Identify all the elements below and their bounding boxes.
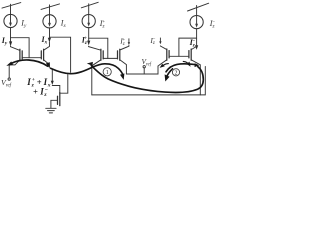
T7 drain L wire	[52, 86, 60, 93]
gate rail pair 1	[22, 57, 41, 59]
down arrow glyph T4	[128, 38, 130, 42]
current source I_z+ arrowhead	[87, 23, 90, 27]
svg-text:+: +	[37, 77, 42, 87]
T7 gate lead wire	[51, 100, 58, 108]
transistor T2 gate bar	[40, 51, 42, 59]
gate rail pair 3	[169, 55, 189, 57]
transistor T5 channel bar	[166, 49, 168, 60]
arrowhead A1 into V_ref1 corner	[6, 62, 13, 66]
wire I_z+ to T3 drain diagonal	[89, 46, 101, 50]
transistor T1 channel bar	[19, 49, 21, 60]
transistor T2 source diagonal	[44, 60, 50, 67]
arrowhead D big pointing down-left near node 2	[165, 74, 170, 81]
arrowhead A2 into T2 source junction	[46, 62, 50, 68]
svg-text:I: I	[26, 77, 31, 87]
small arrow on T6 source diagonal	[187, 62, 191, 67]
transistor T3 gate bar	[102, 51, 104, 59]
transistor T2 channel bar	[43, 49, 45, 60]
node circle 1	[103, 68, 111, 76]
transistor T7 gate bar	[57, 96, 59, 104]
arrowhead C1 into T3 source junction	[87, 62, 93, 66]
wire I_z+ down	[88, 28, 90, 41]
wire I_z- to T6 drain diagonal	[191, 46, 196, 49]
wire I_z- down	[196, 29, 198, 45]
transistor T5 drain diagonal	[160, 46, 166, 50]
transistor T1 source diagonal	[9, 60, 20, 78]
current source I_z- arrow line	[196, 6, 198, 26]
current source I_x arrowhead	[48, 23, 51, 27]
arrowhead into T7 drain	[51, 81, 54, 85]
V_ref2 rail wire	[126, 66, 158, 74]
arrow on I_z+ wire	[87, 41, 90, 46]
T7 drain right branch wire	[60, 75, 68, 94]
bracket wire CS4 gate tie	[179, 38, 197, 56]
arrow on I_y wire	[9, 41, 12, 46]
curve B S-curve to pair2 rail corner	[51, 64, 123, 75]
bracket wire CS2 down to node	[50, 37, 71, 72]
current source I_z- arrowhead	[195, 24, 198, 28]
current source I_y circle	[4, 14, 17, 27]
curve D inner arrow shaft	[166, 69, 172, 78]
current source I_x (top tick)	[41, 4, 60, 9]
arrowhead C2 (epsilon) into T6 source junction	[195, 63, 200, 67]
transistor T1 gate bar	[21, 51, 23, 59]
wire I_y to T1 drain diagonal	[11, 46, 20, 50]
V_ref2 terminal circle	[143, 66, 145, 68]
curve C big loop under 1 and 2	[91, 66, 203, 93]
svg-text:1: 1	[106, 70, 109, 76]
svg-text:Iz−: Iz−	[209, 19, 216, 30]
svg-text:+: +	[33, 87, 38, 97]
current source I_z+ arrow line	[88, 4, 90, 25]
bracket wire CS3 gate tie	[89, 38, 108, 58]
transistor T5 source diagonal	[158, 60, 167, 66]
current source I_y (top tick)	[2, 3, 21, 9]
current source I_x arrow line	[49, 5, 51, 25]
svg-text:2: 2	[175, 71, 178, 77]
arrowhead B big into pair2 rail corner	[120, 73, 124, 80]
svg-text:Iz+: Iz+	[81, 36, 87, 47]
bottom rail wire	[92, 67, 206, 95]
current source I_z- circle	[190, 16, 203, 29]
small arrow on T5 source diagonal	[160, 64, 165, 68]
transistor T4 gate bar	[117, 51, 119, 59]
down arrow glyph T5	[159, 38, 161, 42]
transistor T3 source diagonal and wire to bottom rail	[92, 60, 101, 95]
arrow on I_z- wire	[195, 45, 198, 50]
current source I_x circle	[43, 15, 56, 28]
wire I_x down	[49, 28, 51, 38]
wire I_x to T2 drain diagonal	[44, 42, 50, 50]
svg-text:+: +	[32, 77, 35, 83]
transistor T6 gate bar	[188, 51, 190, 58]
wire with arrow down to T7 drain	[51, 70, 53, 81]
curve D top arc over node 2	[166, 64, 196, 72]
svg-text:Iz−: Iz−	[149, 36, 155, 46]
svg-text:Iz+: Iz+	[119, 37, 125, 47]
current source I_z- (top tick)	[188, 3, 209, 11]
thick current loop curves	[10, 60, 204, 93]
svg-text:Iz−: Iz−	[189, 38, 196, 49]
transistor T4 source diagonal	[120, 60, 127, 74]
bold node label line2: + Iz-	[33, 87, 49, 99]
current source I_y arrow line	[10, 4, 12, 24]
transistor T3 channel bar	[100, 49, 102, 60]
V_ref2 stub	[143, 68, 145, 74]
gate rail pair 2	[103, 57, 117, 59]
node circle 2	[172, 69, 179, 77]
bold node label line1: Iz+ + Ix	[26, 77, 51, 89]
transistor T4 drain diagonal	[120, 45, 129, 50]
current source I_z+ circle	[82, 15, 95, 28]
curve A hump V_ref1 to T2	[10, 60, 48, 66]
current source I_z+ (top tick)	[81, 2, 98, 8]
svg-text:Iz+: Iz+	[99, 19, 106, 30]
transistor T7 channel bar	[59, 93, 61, 106]
current source I_y arrowhead	[9, 23, 12, 27]
transistor T5 gate bar	[168, 51, 170, 58]
transistor T6 channel bar	[190, 49, 192, 60]
transistor T6 source diagonal	[191, 60, 200, 95]
arrow on I_x wire	[48, 38, 51, 43]
bracket wire CS1 gate tie	[11, 38, 30, 58]
ground	[46, 107, 56, 109]
wire I_y down	[10, 28, 12, 42]
transistor T4 channel bar	[119, 49, 121, 60]
V_ref1 terminal circle	[8, 78, 10, 80]
